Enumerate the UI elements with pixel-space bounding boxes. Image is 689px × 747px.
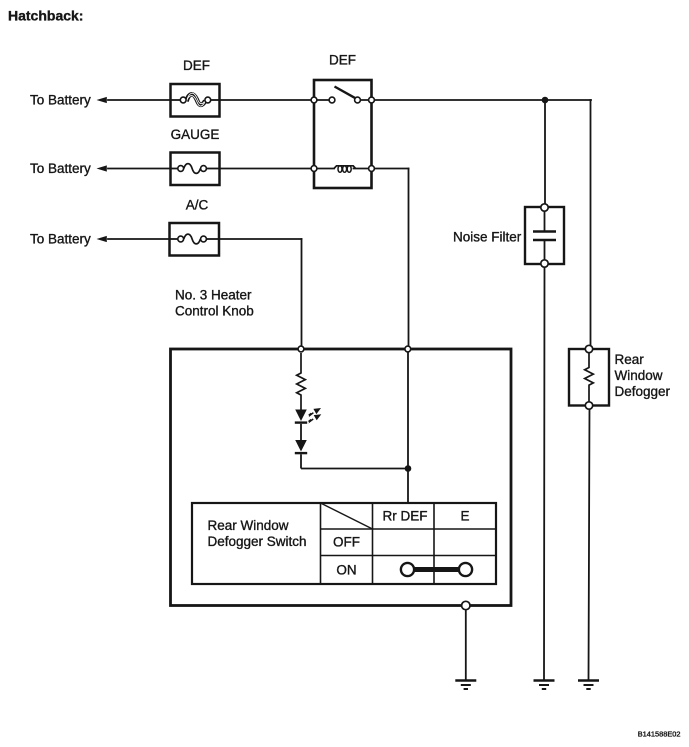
- svg-text:ON: ON: [336, 563, 356, 578]
- svg-text:Rear: Rear: [615, 352, 645, 367]
- svg-text:OFF: OFF: [333, 535, 360, 550]
- svg-text:To Battery: To Battery: [30, 161, 91, 176]
- svg-text:Noise Filter: Noise Filter: [453, 230, 522, 245]
- svg-text:B141588E02: B141588E02: [638, 730, 681, 739]
- svg-text:Hatchback:: Hatchback:: [8, 8, 83, 24]
- svg-text:To Battery: To Battery: [30, 231, 91, 246]
- svg-text:E: E: [460, 509, 469, 524]
- svg-text:Rear Window: Rear Window: [208, 518, 289, 533]
- svg-text:GAUGE: GAUGE: [171, 127, 220, 142]
- svg-text:Defogger: Defogger: [615, 384, 671, 399]
- svg-text:Defogger Switch: Defogger Switch: [208, 534, 307, 549]
- svg-text:DEF: DEF: [183, 58, 210, 73]
- svg-text:No. 3 Heater: No. 3 Heater: [175, 288, 252, 303]
- svg-text:A/C: A/C: [186, 198, 209, 213]
- svg-text:To Battery: To Battery: [30, 92, 91, 107]
- svg-text:Control Knob: Control Knob: [175, 304, 254, 319]
- svg-text:DEF: DEF: [329, 53, 356, 68]
- svg-text:Window: Window: [615, 368, 663, 383]
- svg-text:Rr DEF: Rr DEF: [383, 509, 428, 524]
